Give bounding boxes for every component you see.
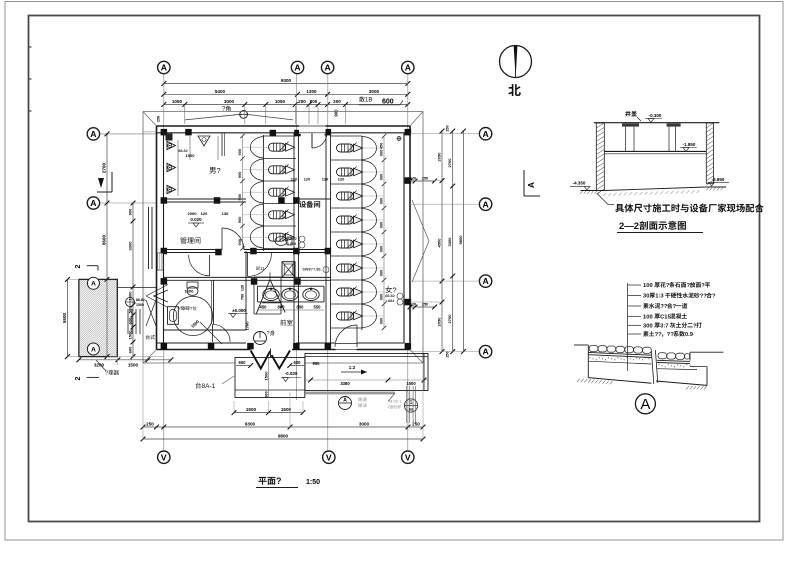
svg-text:A: A <box>91 281 96 288</box>
svg-text:?: ? <box>190 306 193 311</box>
svg-text:800: 800 <box>310 99 318 104</box>
svg-text:100: 100 <box>643 283 653 289</box>
svg-text:C15: C15 <box>660 314 671 320</box>
svg-text:3300: 3300 <box>447 237 452 247</box>
top dim line 5400-1300-3000 <box>161 89 410 97</box>
room label vestibule <box>280 319 292 325</box>
door leaf top equipment redraw <box>311 133 313 148</box>
roof eave outline <box>143 112 423 364</box>
svg-text:A: A <box>294 63 300 73</box>
axis bubble A top-1 <box>158 61 170 73</box>
planter bubble A bottom <box>87 343 99 355</box>
svg-text:A: A <box>161 63 167 73</box>
svg-text:200: 200 <box>333 99 341 104</box>
svg-text:120: 120 <box>338 176 345 181</box>
label san1B600 <box>359 96 403 105</box>
tiny detail tag 2 <box>302 267 329 273</box>
detail A notes text <box>643 282 716 338</box>
svg-text:M: M <box>409 407 413 412</box>
svg-text:900: 900 <box>379 246 384 253</box>
door manage room <box>222 228 244 250</box>
svg-text:900: 900 <box>313 361 321 366</box>
svg-text:1500: 1500 <box>263 371 268 381</box>
top dim line 9300 <box>161 78 410 86</box>
svg-text:900: 900 <box>379 222 384 229</box>
svg-text:250: 250 <box>422 303 428 307</box>
svg-text:A: A <box>482 347 488 357</box>
svg-text:11: 11 <box>260 266 265 271</box>
ramp X brace left <box>146 300 156 326</box>
svg-text:900: 900 <box>379 198 384 205</box>
svg-text:??: ?? <box>700 294 708 300</box>
svg-text:600: 600 <box>294 360 302 365</box>
detail marker walkway A <box>339 397 367 410</box>
svg-text:??: ?? <box>655 332 663 338</box>
right small dims 120-250 <box>408 177 437 310</box>
svg-text:-3.850: -3.850 <box>712 177 725 182</box>
svg-text:A: A <box>343 398 347 404</box>
squat toilets bank B <box>337 143 363 321</box>
wall x213 accessible-vestibule <box>212 280 214 324</box>
section 2-2 bottom slope <box>603 187 706 196</box>
svg-text:A: A <box>90 198 96 208</box>
svg-text:120: 120 <box>410 177 416 181</box>
exterior wall left <box>157 126 164 350</box>
svg-text:??: ?? <box>667 332 675 338</box>
svg-text:V: V <box>326 452 332 462</box>
svg-text:120: 120 <box>201 211 208 216</box>
structural columns (filled) <box>161 129 412 350</box>
toilet stall5 bankA <box>275 237 292 246</box>
level mark -0.020 entrance <box>281 371 301 382</box>
svg-text:A: A <box>640 396 650 413</box>
bottom dim 6300-3000 <box>141 422 426 430</box>
label jinggai <box>625 111 641 121</box>
svg-text:8A-1: 8A-1 <box>202 383 216 390</box>
svg-text:9300: 9300 <box>281 78 292 83</box>
svg-text:V: V <box>405 452 411 462</box>
entrance double door V leaves <box>251 349 290 369</box>
dims under wall y200 <box>188 211 230 216</box>
section cut 2 top <box>75 264 98 270</box>
door top equipment <box>312 133 327 148</box>
level mark 0.020 manage <box>188 217 204 227</box>
svg-text:A: A <box>91 346 96 353</box>
svg-text:6300: 6300 <box>245 422 256 427</box>
svg-text:2700: 2700 <box>447 158 452 168</box>
label steps A-1 <box>196 376 234 390</box>
axis bubble A left-2 <box>87 197 99 209</box>
exterior wall top <box>157 126 411 133</box>
accessible toilet <box>168 307 179 325</box>
mens partition stub <box>222 133 225 156</box>
detail A note leader lines <box>628 283 641 371</box>
section 2-2 ground left <box>580 191 604 194</box>
axis bubble A left-1 <box>87 128 99 140</box>
svg-text:900: 900 <box>379 294 384 301</box>
svg-text:?: ? <box>712 294 716 300</box>
axis bubble A top-3 <box>321 61 333 73</box>
svg-text:3300: 3300 <box>128 241 133 251</box>
svg-text:2: 2 <box>75 376 82 380</box>
axis bubble V bottom-1 <box>158 451 170 463</box>
railing ext lines <box>406 386 415 423</box>
interior wall stall-bank-A front x263 <box>262 135 264 251</box>
svg-text:800: 800 <box>297 305 305 310</box>
interior wall y251 <box>164 250 331 253</box>
north arrow <box>500 46 532 97</box>
sink dim line <box>257 305 324 311</box>
door arc bankA-bay <box>248 253 272 277</box>
interior wall x296 equipment <box>294 133 299 343</box>
stall doors bank A <box>250 137 263 249</box>
svg-text:1600: 1600 <box>185 289 195 294</box>
section flag A right <box>524 170 540 196</box>
A-frame ladder marker <box>256 273 285 314</box>
window opening left wall <box>157 253 163 269</box>
room label equipment <box>299 201 320 208</box>
mop sink mens <box>190 136 218 160</box>
dim 1600 accessible <box>185 289 195 294</box>
svg-text:900: 900 <box>237 172 242 179</box>
level -1.850 <box>680 142 697 152</box>
planter hatched rectangle <box>79 279 117 356</box>
svg-text:9800: 9800 <box>458 235 463 245</box>
svg-text:8600: 8600 <box>102 234 107 245</box>
canopy slope marker 2jiao <box>185 106 293 120</box>
svg-text:100: 100 <box>643 314 653 320</box>
svg-text:88.82-: 88.82- <box>136 298 147 302</box>
svg-text:1500: 1500 <box>136 303 144 307</box>
axis bubble A right-2 <box>479 198 491 210</box>
svg-text:600: 600 <box>128 346 133 353</box>
svg-text:2—2: 2—2 <box>619 221 639 232</box>
svg-text:900: 900 <box>237 217 242 224</box>
window sill left wall <box>157 253 164 270</box>
svg-text:A: A <box>526 182 536 188</box>
svg-text:120: 120 <box>291 176 298 181</box>
women corridor partition <box>0 0 1 1</box>
svg-text:M.02-1: M.02-1 <box>389 399 402 404</box>
svg-text:?: ? <box>267 331 270 337</box>
exterior wall bottom <box>157 343 411 350</box>
accessible door arc top <box>189 255 210 276</box>
svg-text:120: 120 <box>241 285 245 291</box>
door opening top wall <box>299 125 326 134</box>
section 2-2 title <box>617 221 703 233</box>
detail A pavement break <box>651 350 657 384</box>
detail A pavement right block <box>656 352 723 389</box>
axis bubble A top-2 <box>291 61 303 73</box>
svg-text:-0.300: -0.300 <box>649 113 662 118</box>
wall line extension top-left <box>143 116 161 132</box>
plan title <box>256 476 320 488</box>
door women bottom <box>335 325 357 347</box>
section 2-2 mid slab <box>604 151 706 153</box>
floor drain symbol <box>254 330 275 344</box>
shaft box with X <box>282 262 295 278</box>
wall y280 vestibule north <box>164 277 331 280</box>
label slope ramp left <box>96 360 119 377</box>
svg-text:?: ? <box>276 476 282 486</box>
bottom extension lines <box>143 363 423 440</box>
svg-text:?: ? <box>693 323 697 329</box>
svg-text:250: 250 <box>157 116 161 122</box>
axis bubble A right-3 <box>479 275 491 287</box>
entrance steps <box>235 358 305 398</box>
detail A bubble <box>635 394 655 414</box>
ramp walls left of building <box>128 207 152 334</box>
svg-text:??: ?? <box>660 304 668 310</box>
svg-text:2700: 2700 <box>102 162 107 173</box>
top tick extension lines <box>164 76 408 124</box>
svg-text:1050: 1050 <box>275 99 286 104</box>
planter bubble A top <box>87 277 99 289</box>
svg-text:?: ? <box>666 283 670 289</box>
svg-text:A: A <box>90 129 96 139</box>
svg-text:5400: 5400 <box>215 89 226 94</box>
stall depth dim column bank A <box>237 134 245 251</box>
svg-text:900: 900 <box>237 194 242 201</box>
tiny detail tag 3 <box>385 293 403 305</box>
axis bubble V bottom-3 <box>402 451 414 463</box>
svg-text:1300: 1300 <box>306 89 317 94</box>
svg-text:1: 1 <box>410 400 413 406</box>
level mark 0.000 vestibule <box>228 308 248 318</box>
svg-text:120: 120 <box>322 176 329 181</box>
svg-text:900: 900 <box>237 239 242 246</box>
svg-text:900: 900 <box>379 318 384 325</box>
level -0.300 <box>645 113 662 123</box>
squat toilets bank A <box>269 142 295 242</box>
tiny detail tag 1 <box>287 236 305 248</box>
accessible turning circle <box>173 296 222 344</box>
svg-text:250: 250 <box>445 125 449 131</box>
stall doors bank B <box>362 137 377 328</box>
svg-text:3000: 3000 <box>224 99 235 104</box>
stall partitions bank B <box>331 136 385 328</box>
stall front line bank B <box>361 136 363 330</box>
exterior wall right <box>404 126 410 350</box>
left dim chain x107 <box>102 132 110 360</box>
svg-text:3:7: 3:7 <box>660 323 668 329</box>
axis bubble A right-1 <box>479 128 491 140</box>
room label women <box>385 286 396 295</box>
svg-text:900: 900 <box>237 149 242 156</box>
axis bubble A top-4 <box>402 61 414 73</box>
walkway ramp <box>305 354 428 402</box>
svg-text:1500: 1500 <box>406 381 416 386</box>
svg-text:250: 250 <box>412 422 420 427</box>
interior wall x330 equipment-right <box>326 133 331 343</box>
svg-text:A: A <box>482 129 488 139</box>
svg-text:SW8??.88.: SW8??.88. <box>302 268 321 272</box>
axis grid lines <box>101 75 408 451</box>
dim 1760 vestibule <box>245 321 250 331</box>
left dim chain x133 <box>128 201 136 359</box>
svg-text:900: 900 <box>379 174 384 181</box>
svg-text:1:50: 1:50 <box>306 479 320 486</box>
section 2-2 right wall hatched <box>706 123 713 185</box>
svg-text:1500: 1500 <box>128 363 139 368</box>
svg-text:3000: 3000 <box>369 89 380 94</box>
svg-text:0.020: 0.020 <box>190 217 202 222</box>
svg-text:9800: 9800 <box>278 434 289 439</box>
left dim 5500 <box>62 277 70 359</box>
detail marker walkway rail <box>387 399 418 413</box>
section flag A left <box>97 172 112 192</box>
svg-text:450: 450 <box>260 305 268 310</box>
svg-text:30: 30 <box>643 294 649 300</box>
svg-text:A: A <box>324 63 330 73</box>
svg-text:3380: 3380 <box>340 381 350 386</box>
svg-text:?: ? <box>673 304 677 310</box>
right dim chain x452 <box>447 129 455 354</box>
detail A pavement left block <box>574 345 651 384</box>
svg-text:A: A <box>482 199 488 209</box>
svg-text:300: 300 <box>643 323 653 329</box>
stall partitions bank A <box>243 136 297 249</box>
svg-text:2000: 2000 <box>188 211 198 216</box>
svg-text:2050: 2050 <box>437 317 442 327</box>
svg-text:-1.850: -1.850 <box>683 142 696 147</box>
svg-text:?: ? <box>217 166 221 175</box>
svg-text:1500: 1500 <box>186 153 196 158</box>
svg-text:88.82: 88.82 <box>385 294 395 298</box>
svg-text:250: 250 <box>146 422 154 427</box>
svg-text:L884: L884 <box>386 299 396 303</box>
door opening bottom wall women <box>336 342 357 351</box>
left extension lines <box>68 279 165 365</box>
svg-text:1:2: 1:2 <box>349 365 356 370</box>
svg-text:-0.020: -0.020 <box>285 371 298 376</box>
circled tag left wall <box>126 298 147 308</box>
room label manage <box>180 237 200 243</box>
svg-text:-4.350: -4.350 <box>573 181 586 186</box>
svg-text:L884: L884 <box>288 242 298 246</box>
svg-text:V: V <box>161 452 167 462</box>
svg-text:300: 300 <box>264 391 268 397</box>
bottom dim 9800 <box>141 434 426 442</box>
stall depth dim column bank B <box>379 134 387 330</box>
svg-text:1B: 1B <box>365 98 372 104</box>
right canopy fold marker <box>412 200 429 282</box>
svg-text:?: ? <box>687 283 691 289</box>
section 2-2 left wall hatched <box>596 123 604 194</box>
sink counter vestibule <box>257 286 324 302</box>
svg-text:900: 900 <box>379 270 384 277</box>
right wall axis lines <box>410 134 479 352</box>
svg-text:900: 900 <box>128 208 133 215</box>
svg-text:4500: 4500 <box>437 238 442 248</box>
section 2-2 manhole covers <box>622 123 681 151</box>
svg-text:3000: 3000 <box>359 422 370 427</box>
svg-text:250: 250 <box>445 351 449 357</box>
label taishi <box>146 335 155 340</box>
svg-text:200: 200 <box>298 99 306 104</box>
axis bubble V bottom-2 <box>323 451 335 463</box>
svg-text:?: ? <box>105 371 108 377</box>
accessible door arc bottom <box>213 324 231 342</box>
room label men <box>209 166 220 175</box>
svg-text:130: 130 <box>222 211 229 216</box>
tiny tag mens top <box>178 149 195 158</box>
entrance 600 dims <box>236 360 304 368</box>
right dim chain x442 <box>437 129 445 354</box>
svg-text:600: 600 <box>239 360 247 365</box>
svg-text:1760: 1760 <box>245 321 250 331</box>
svg-text:120: 120 <box>304 176 311 181</box>
svg-text:0.9: 0.9 <box>685 332 694 338</box>
stall width dims 120 <box>291 176 345 181</box>
svg-text:5500: 5500 <box>62 312 67 323</box>
right dim chain x463 9800 <box>445 125 465 357</box>
svg-text:A: A <box>405 63 411 73</box>
axis bubble A right-4 <box>479 345 491 357</box>
svg-text:±0.000: ±0.000 <box>232 308 246 313</box>
svg-text:120: 120 <box>410 303 416 307</box>
svg-text:900: 900 <box>379 150 384 157</box>
svg-text:450: 450 <box>379 143 384 150</box>
urinals mens room <box>166 134 179 197</box>
planter dim 3200-1500 <box>77 357 174 367</box>
svg-text:A: A <box>482 276 488 286</box>
floor drain cross women walkway <box>397 137 401 141</box>
svg-text:900: 900 <box>334 109 339 117</box>
section 2-2 leader note <box>597 194 764 213</box>
ramp chevrons left <box>146 285 168 308</box>
shaft side walls <box>254 277 281 314</box>
section 2-2 ground right <box>706 187 726 190</box>
svg-text:2050: 2050 <box>437 152 442 162</box>
accessible basin <box>187 282 198 296</box>
svg-text:700: 700 <box>241 294 245 300</box>
section 2-2 top slab line <box>594 122 720 124</box>
svg-text:250: 250 <box>422 177 428 181</box>
level -3.850 <box>708 177 729 186</box>
threshold line left <box>117 287 156 289</box>
level -4.350 <box>570 181 591 191</box>
svg-text:2700: 2700 <box>447 314 452 324</box>
bottom dim 1500-1500 <box>232 407 306 415</box>
interior wall x246 lower <box>245 251 247 330</box>
interior wall y200 <box>164 199 331 202</box>
sinks vestibule <box>263 288 319 301</box>
interior wall accessible room y330 <box>164 329 247 331</box>
svg-text:2: 2 <box>75 264 82 268</box>
svg-text:550: 550 <box>314 305 322 310</box>
section cut 2 bottom <box>75 376 99 380</box>
svg-text:1500: 1500 <box>246 407 257 412</box>
svg-text:1:3: 1:3 <box>655 294 664 300</box>
top dim line sub <box>161 99 410 117</box>
dims 120-700 bay <box>241 285 245 300</box>
svg-text:?: ? <box>701 283 705 289</box>
svg-text:1050: 1050 <box>172 99 183 104</box>
